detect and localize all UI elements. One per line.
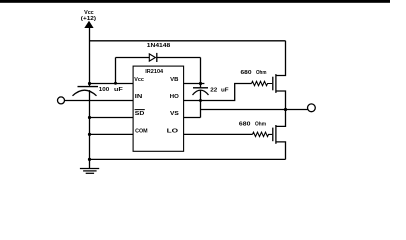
svg-text:HO: HO <box>170 94 179 100</box>
transistor Q1 channel bar <box>275 74 277 93</box>
Vcc power arrow <box>84 21 93 28</box>
svg-text:IN: IN <box>135 94 143 100</box>
wire IN pin <box>65 100 134 102</box>
wire top rail <box>90 40 286 42</box>
node C2-HO dot <box>199 99 202 102</box>
wire diode anode <box>116 57 150 59</box>
svg-text:VB: VB <box>170 77 178 83</box>
wire Vcc rail lower <box>89 90 91 159</box>
wire SD pin <box>90 117 134 119</box>
resistor R1 zigzag <box>252 81 273 85</box>
terminal input circle <box>58 97 65 104</box>
wire diode cathode <box>157 57 201 59</box>
ground bar 1 <box>80 168 99 170</box>
wire HO pin with jog <box>184 84 252 101</box>
svg-text:100: 100 <box>99 87 109 93</box>
diode D1 cathode bar <box>156 53 158 62</box>
node COM junction dot <box>88 133 91 136</box>
svg-text:SD: SD <box>135 111 145 117</box>
wire VS pin <box>184 117 201 119</box>
transistor Q2 gate bar <box>272 128 274 142</box>
wire COM pin <box>90 133 134 135</box>
transistor Q1 gate bar <box>272 77 274 91</box>
svg-text:22: 22 <box>210 88 217 94</box>
svg-text:IR2104: IR2104 <box>145 69 164 75</box>
wire VB pin <box>184 83 205 85</box>
transistor Q1 drain lead <box>276 41 286 76</box>
node diode-Vcc dot <box>114 82 117 85</box>
capacitor C2 22uF curved plate <box>193 90 209 95</box>
node SD junction dot <box>88 116 91 119</box>
wire bottom rail <box>90 158 286 160</box>
node output junction dot <box>284 108 287 111</box>
transistor Q2 channel bar <box>275 125 277 144</box>
svg-text:Ohm: Ohm <box>255 122 266 128</box>
svg-text:Vcc: Vcc <box>134 77 144 83</box>
node ground junction dot <box>88 158 91 161</box>
svg-text:LO: LO <box>167 128 179 134</box>
svg-text:uF: uF <box>221 88 229 94</box>
node Vcc junction dot <box>88 82 91 85</box>
pin label SD overline <box>135 109 145 111</box>
capacitor C1 100uF curved plate <box>73 90 97 96</box>
ground bar 3 <box>86 172 94 174</box>
node VB junction dot <box>199 82 202 85</box>
ground stem <box>89 159 91 168</box>
svg-text:680: 680 <box>239 122 251 128</box>
svg-text:uF: uF <box>114 87 123 93</box>
capacitor C1 100uF straight plate <box>78 86 99 88</box>
transistor Q2 source lead <box>276 142 286 160</box>
ground bar 2 <box>83 170 97 172</box>
svg-text:VS: VS <box>170 111 179 117</box>
svg-text:680: 680 <box>241 70 252 76</box>
resistor R2 zigzag <box>253 132 273 136</box>
svg-text:(+12): (+12) <box>81 16 96 22</box>
svg-text:1N4148: 1N4148 <box>147 43 171 49</box>
wire VS to output <box>201 109 286 111</box>
capacitor C2 22uF straight plate <box>193 87 208 89</box>
wire C2 lower lead <box>200 90 202 117</box>
wire Vcc pin <box>90 83 134 85</box>
wire diode left leg <box>115 58 117 84</box>
IC U1 IR2104 box <box>133 66 184 151</box>
transistor Q1 source lead <box>276 91 286 110</box>
diode D1 triangle <box>149 54 155 61</box>
transistor Q2 drain lead <box>276 110 286 127</box>
terminal output circle <box>308 104 316 112</box>
svg-text:Ohm: Ohm <box>256 70 267 76</box>
wire LO pin <box>184 133 253 135</box>
svg-text:COM: COM <box>135 128 148 134</box>
wire Vcc rail upper <box>89 28 91 88</box>
wire output <box>286 109 308 111</box>
top border bar <box>0 0 390 3</box>
wire diode right leg <box>200 58 202 88</box>
